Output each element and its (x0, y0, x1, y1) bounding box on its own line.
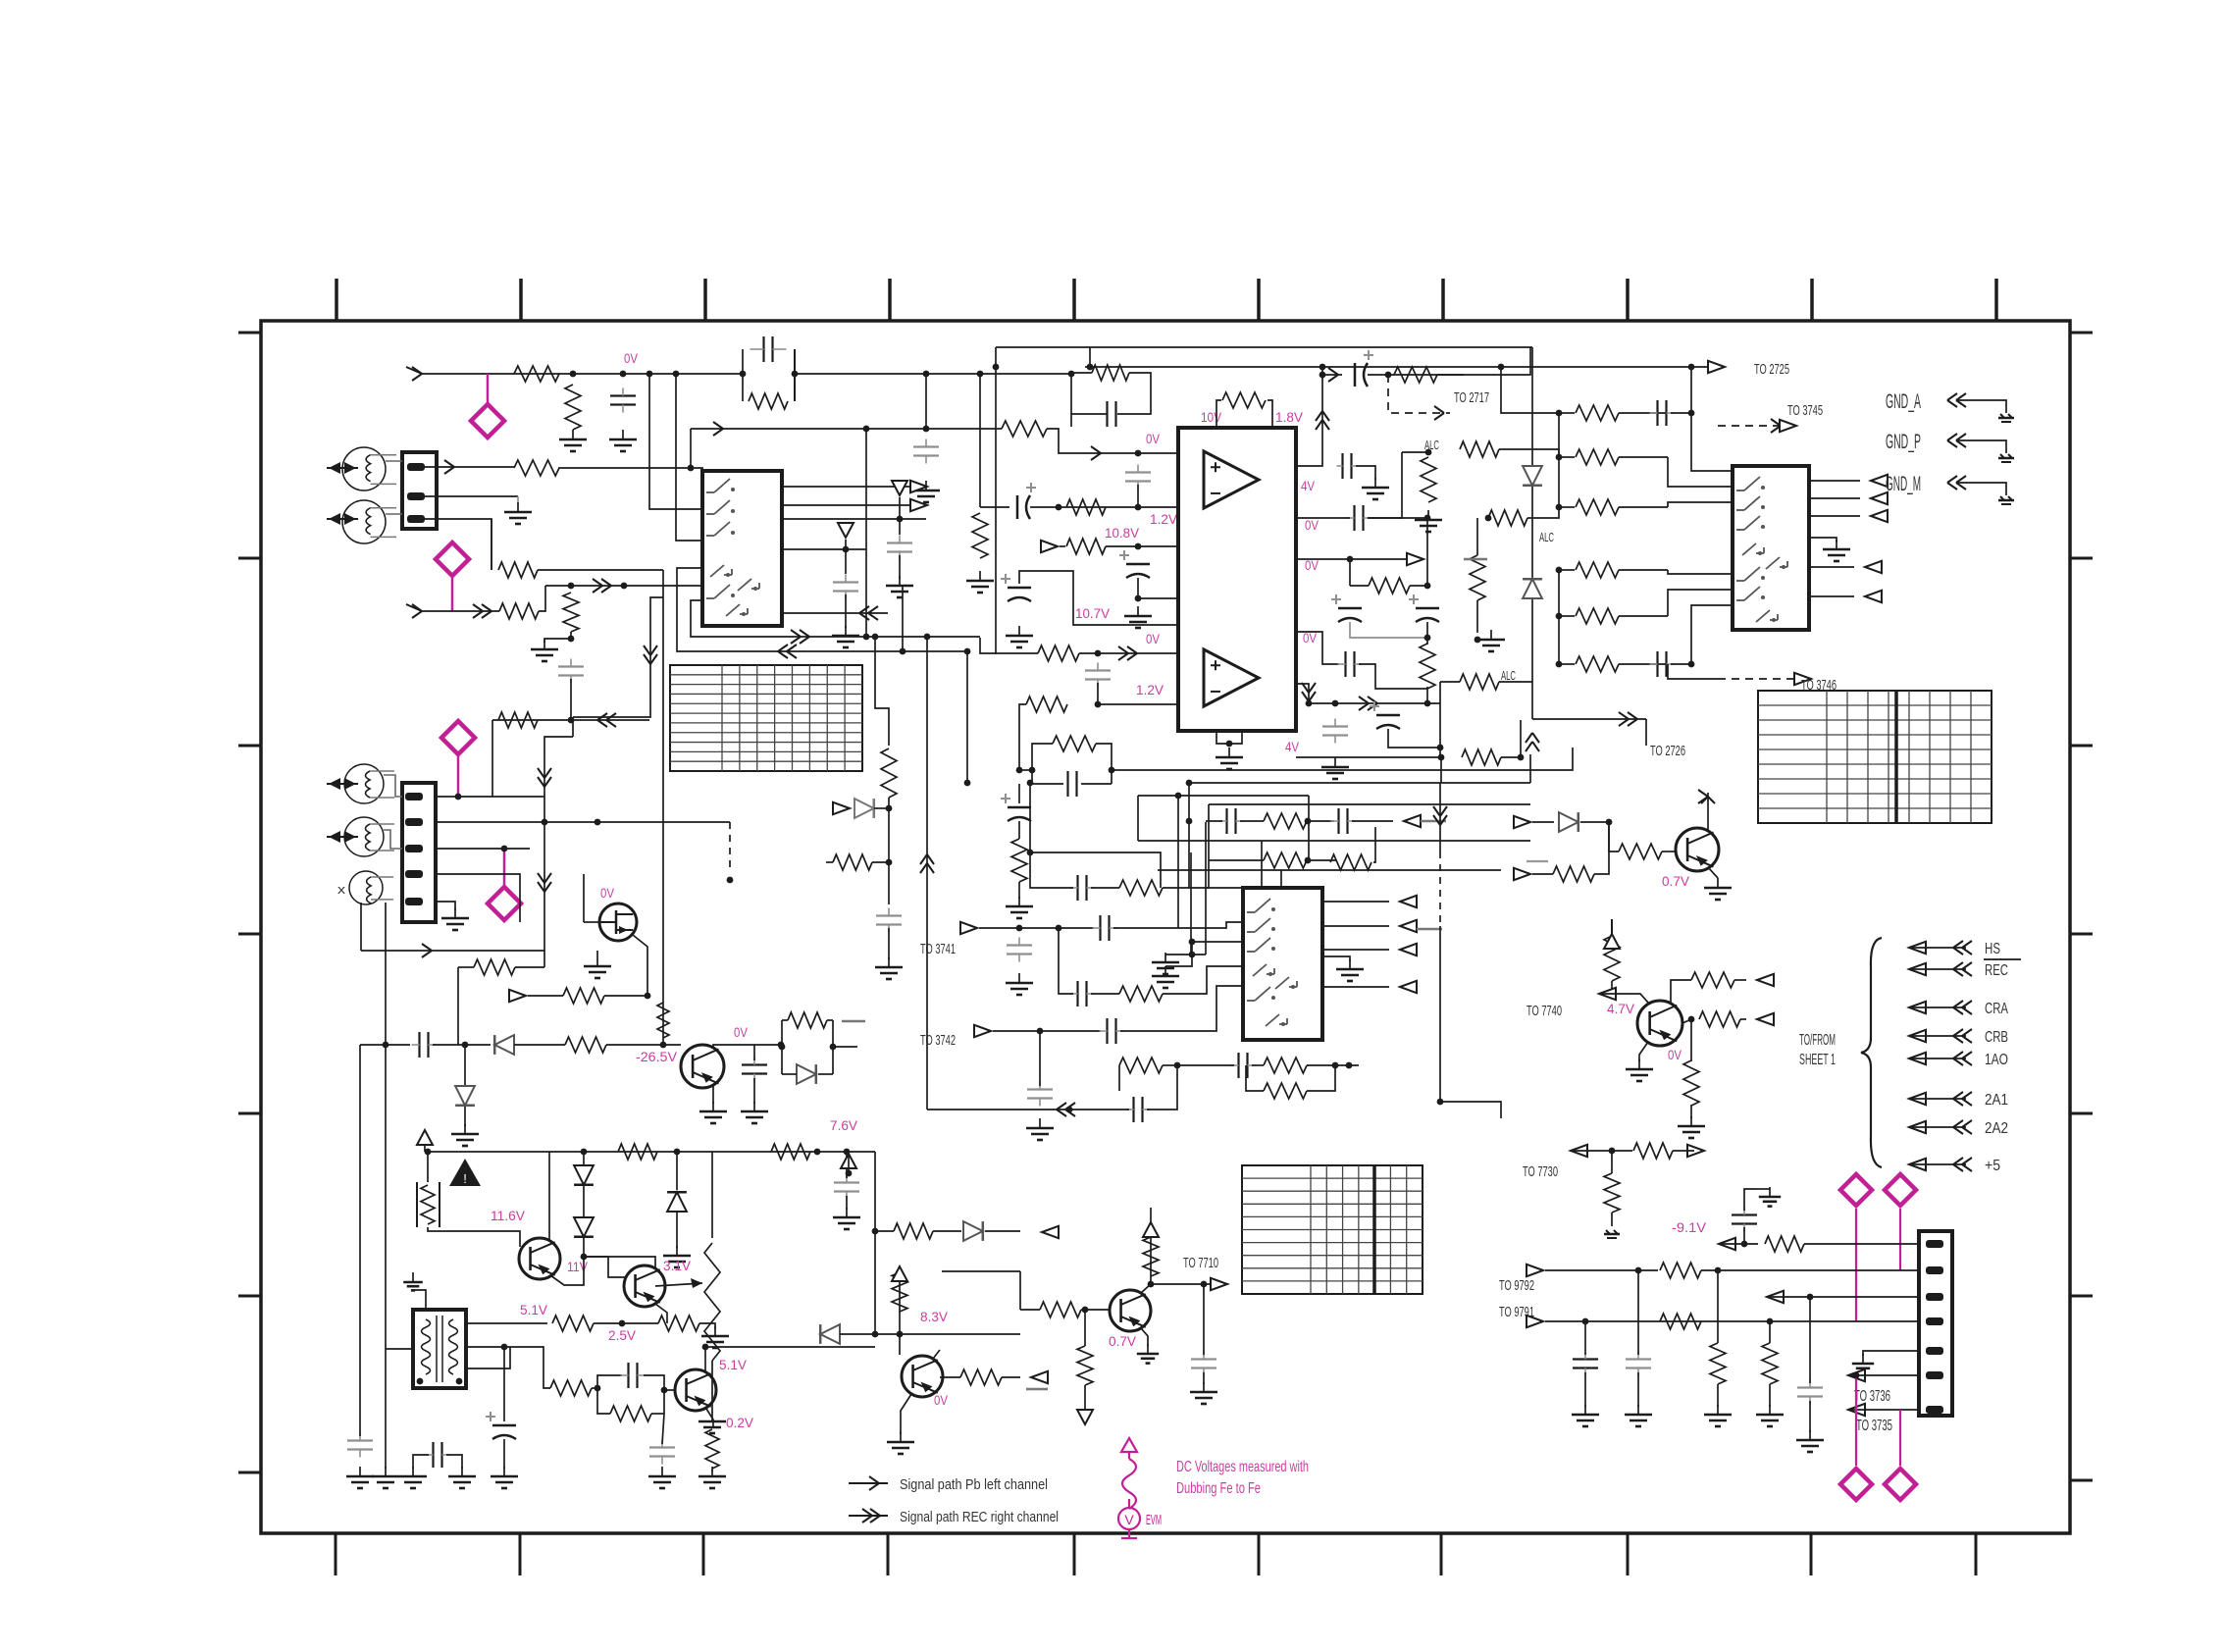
wire E650 (1426, 622, 1428, 645)
capacitor C147 (833, 581, 858, 583)
arrow lf (1065, 1103, 1075, 1110)
wire D6 drop (1899, 1209, 1901, 1270)
wire col879b (872, 861, 889, 863)
svg-text:GND_M: GND_M (1886, 473, 1921, 495)
wire alc top (1402, 451, 1428, 453)
node P5 (501, 846, 508, 852)
svg-text:1.8V: 1.8V (1275, 410, 1303, 425)
wire v467 (457, 967, 459, 1045)
ground G125 (712, 1102, 714, 1111)
wire bus663 drop (966, 651, 968, 783)
node I0 (1556, 567, 1563, 574)
arrow v663 (644, 645, 650, 655)
wire n2 dropb (1690, 1105, 1692, 1118)
wire pin X2-5 (436, 902, 455, 910)
wire 107loop (1019, 571, 1178, 625)
wire 4V bus (1296, 756, 1441, 758)
resistor R150 (771, 1144, 810, 1160)
node K5 (1175, 793, 1182, 800)
node L2 (1332, 1062, 1339, 1069)
svg-text:ALC: ALC (1539, 530, 1554, 544)
node E650 (1424, 635, 1431, 642)
resistor R161 (1077, 1346, 1093, 1385)
diode V110 (963, 1221, 983, 1241)
node J4 (1189, 939, 1196, 946)
wire RC1 out (795, 373, 1071, 375)
svg-text:+5: +5 (1985, 1158, 2000, 1174)
wire diamond D3 (457, 756, 460, 797)
wire stub862b (845, 594, 847, 628)
transformer core (436, 1316, 438, 1382)
wire input 623 (422, 610, 499, 612)
node P4 (727, 877, 734, 884)
wire mid97 (1769, 1296, 1919, 1298)
capacitor C137 (347, 1439, 373, 1441)
ground G121 (1638, 1059, 1640, 1069)
capacitor C105 (1125, 471, 1151, 473)
wire v663riser (573, 597, 663, 717)
wire j3 drop (1039, 1031, 1041, 1086)
wire v1530 (1501, 367, 1559, 413)
wire into U3 b (1668, 502, 1733, 507)
wire x3 gnd (1863, 1351, 1919, 1356)
wire 7730v2 (1611, 1213, 1613, 1226)
resistor R126 (1460, 441, 1499, 457)
capacitor C134 (627, 1363, 629, 1388)
wire r168b (1717, 1384, 1719, 1407)
capacitor C116 (1416, 607, 1439, 610)
wire RC1 frame2 (794, 349, 796, 401)
node L3 (1346, 1062, 1353, 1069)
arrow U1 o2 (910, 499, 927, 511)
arrow 9792 (1526, 1265, 1543, 1276)
node I1 (1556, 613, 1563, 620)
wire v883 (865, 429, 867, 637)
switch U4 s2 (1255, 918, 1270, 932)
arrow q2 o1 (1757, 974, 1774, 986)
wire s4 to q6 (584, 1257, 625, 1277)
node U8n (1853, 1372, 1860, 1379)
svg-text:TO 7740: TO 7740 (1526, 1003, 1562, 1019)
ground G135 (359, 1467, 361, 1476)
wire FB frame3 (1071, 413, 1107, 415)
arrow bus664 (787, 645, 797, 651)
pin X1-2 (407, 492, 425, 500)
node RC1a (740, 371, 747, 378)
wire lf1086c (1252, 1064, 1264, 1066)
wire bus734 (492, 719, 649, 721)
wire into U3 a (1668, 457, 1733, 487)
switch U3 s4 (1742, 543, 1756, 555)
ground G104 (979, 571, 981, 581)
wire col879 (826, 861, 833, 863)
capacitor C138 (432, 1442, 434, 1468)
wire v1286 (1261, 841, 1263, 888)
input arrow J3 (422, 944, 432, 951)
switch U3 s7 (1744, 587, 1760, 600)
frame tick top 5 (1072, 279, 1076, 321)
diode V104 (494, 1035, 514, 1055)
wire input top (422, 373, 743, 375)
wire pin X2-2 bus (436, 821, 730, 823)
wire head1 link (386, 460, 402, 462)
wire v690 (676, 1152, 678, 1190)
wire diamond D2 (451, 578, 454, 611)
node B6 (1135, 595, 1142, 602)
wire row905a (1030, 852, 1073, 888)
resistor R165 (1765, 1236, 1804, 1252)
pin X3-1 (1926, 1240, 1943, 1248)
wire q6 coll (584, 1257, 655, 1267)
wire v1589b (1558, 570, 1560, 664)
wire alc drop (1368, 452, 1402, 518)
wire r169b (1769, 1384, 1771, 1407)
arrow rec 734 (606, 713, 616, 720)
wire r155b (592, 1387, 597, 1389)
svg-text:0V: 0V (1668, 1048, 1682, 1062)
wire v1039b (1018, 784, 1020, 803)
wire r168 (1717, 1270, 1719, 1343)
transformer winding R (449, 1319, 458, 1374)
wire r134 up (1373, 827, 1375, 862)
diode V101 (1523, 466, 1542, 486)
switch U4 s5 (1275, 977, 1289, 989)
wire tr1 right2 (466, 1346, 504, 1348)
wire row1013b (1163, 966, 1243, 994)
chevron sig REC (1962, 962, 1972, 969)
resistor R157 (894, 1223, 933, 1239)
wire into U3 d (1668, 570, 1733, 574)
resistor R118 (1369, 578, 1410, 594)
wire bus1373b (705, 1346, 875, 1348)
arrow bus733 (1619, 712, 1629, 719)
tape head HD1 (342, 447, 386, 490)
wire v1111 (1089, 347, 1091, 367)
wire sig 2A2 (1911, 1126, 1966, 1128)
resistor R143 (1683, 1060, 1699, 1106)
node J1 (1016, 925, 1023, 932)
svg-text:HS: HS (1985, 941, 2000, 957)
wire v555 top (544, 737, 573, 755)
head arrows HD2 (329, 513, 340, 525)
arrow 3735 (1848, 1404, 1865, 1416)
ground G130 (711, 1467, 713, 1476)
resistor R171 (881, 749, 897, 798)
svg-text:x: x (337, 882, 346, 897)
wire U3 o3 (1809, 515, 1860, 517)
node S8 (595, 1385, 601, 1392)
wire q6 to pot (655, 1283, 702, 1286)
wire dashed 2717 (1388, 375, 1450, 413)
resistor R109 (1038, 645, 1079, 661)
legend arrow rec (849, 1515, 888, 1517)
frame tick top 9 (1810, 279, 1814, 321)
wire pin1 (425, 466, 515, 468)
arrow GND_A (1956, 393, 1966, 400)
node T0 (872, 1228, 879, 1235)
svg-text:TO/FROM: TO/FROM (1799, 1032, 1836, 1049)
diode V112 (854, 799, 874, 818)
chevron sig 2A2 (1962, 1120, 1972, 1127)
wire U4 o3 (1322, 949, 1389, 951)
input arrow J2 tail (406, 604, 422, 611)
wire q7 emit (706, 1409, 713, 1427)
wire F2v (1439, 703, 1441, 757)
node bus649a (924, 634, 931, 641)
chassis ground GND_M (1998, 499, 2014, 502)
wire r169 (1769, 1321, 1771, 1343)
wire U3 o1 (1809, 480, 1860, 482)
wire q3 gate v (583, 874, 585, 922)
svg-text:0V: 0V (1146, 632, 1160, 646)
wire pin2 drop (517, 496, 519, 504)
resistor R144 (474, 959, 515, 975)
node RC2c (1109, 767, 1115, 774)
input arrow J2 (412, 604, 422, 611)
wire v582 (570, 679, 572, 720)
diode V107 (574, 1165, 594, 1185)
ground G150 (888, 957, 890, 967)
wire sig CRB (1911, 1035, 1966, 1037)
switch U4 s1 (1255, 899, 1270, 912)
resistor R136 (1264, 1058, 1307, 1073)
wire 3742 (993, 1030, 1101, 1032)
switch U4 s6 (1255, 987, 1270, 1001)
svg-text:V: V (1124, 1512, 1134, 1527)
svg-text:7.6V: 7.6V (830, 1118, 857, 1133)
wire GND_M (1958, 483, 2006, 495)
arrow q1 up (1698, 790, 1708, 797)
diode V106 (797, 1064, 816, 1084)
wire fb837b (1240, 820, 1264, 822)
input arrow J1 (412, 367, 422, 374)
wire 3736 (1850, 1374, 1919, 1376)
wire pin X2-1 (436, 796, 544, 798)
capacitor C143 (1626, 1358, 1651, 1360)
diamond ref D7 (1840, 1469, 1872, 1500)
wire fb837d (1352, 820, 1393, 822)
arrow 3736 (1848, 1369, 1865, 1381)
resistor R158 (892, 1272, 907, 1312)
wire v368 (360, 903, 362, 951)
capacitor C123 (1099, 915, 1101, 941)
node P3 (595, 819, 601, 826)
frame tick top 10 (1994, 279, 1998, 321)
ground G113 (1334, 757, 1336, 767)
wire row517b (1030, 506, 1178, 508)
wire row718b (1019, 704, 1026, 770)
ground G154 (1018, 897, 1020, 906)
wire U2 top stub R (1268, 400, 1272, 428)
node B2 (1135, 450, 1142, 457)
frame tick right 2 (2070, 557, 2093, 560)
svg-text:0.2V: 0.2V (726, 1416, 753, 1430)
arrow row1255 (1042, 1226, 1059, 1238)
wire rail1065c (514, 1044, 565, 1046)
node R2 (660, 1042, 667, 1049)
wire h798 (1189, 782, 1530, 784)
wire into U3 f (1691, 605, 1733, 664)
node H3 (1688, 410, 1695, 417)
arrow GND_M (1956, 476, 1966, 483)
diamond ref D8 (1885, 1469, 1916, 1500)
wire pot top (711, 1152, 713, 1238)
wire U1 out1 (782, 486, 916, 488)
chassis ground 7730 (1604, 1233, 1620, 1236)
pin X1-3 (407, 515, 425, 523)
node R3 (778, 1042, 785, 1049)
ground G132 (714, 1326, 716, 1336)
svg-text:-9.1V: -9.1V (1672, 1220, 1706, 1235)
wire row1255b (933, 1230, 961, 1232)
node v393 (383, 1042, 389, 1049)
wire r144 (515, 966, 544, 968)
wire U2 570 (1296, 558, 1413, 560)
frame tick left 3 (238, 745, 261, 748)
tape head HD2 (342, 500, 386, 543)
ground G105 (1137, 606, 1139, 616)
arrow U1 o3 (868, 606, 878, 613)
wire row581 (538, 569, 663, 571)
capacitor C126 (1106, 1018, 1108, 1044)
node bus651d (872, 634, 879, 641)
node T4 (1082, 1307, 1089, 1314)
transistor Q4 (681, 1045, 724, 1088)
node S5 (814, 1149, 821, 1156)
wire rc3b2 (782, 1073, 797, 1075)
arrow v945 (920, 863, 927, 873)
head arrows HD3 (329, 778, 340, 790)
frame tick right 3 (2070, 745, 2093, 748)
wire 3746 stub (1668, 664, 1718, 679)
svg-text:TO 2726: TO 2726 (1650, 743, 1685, 759)
wire row1013a (1059, 928, 1073, 994)
wire stub917b (899, 555, 901, 579)
ground G102 (622, 430, 624, 439)
ground G126 (753, 1102, 755, 1111)
wire U2 697 (1296, 684, 1440, 703)
wire 7730v (1611, 1151, 1613, 1173)
switch U1 s5 (738, 579, 751, 591)
wire v502 low (492, 720, 493, 797)
wire 644b (1359, 664, 1427, 689)
wire v1232 (1207, 804, 1209, 888)
resistor R103 (749, 393, 788, 409)
wire U1 out560 (782, 548, 866, 550)
ground G106 (1018, 626, 1020, 636)
wire row905 (1091, 887, 1119, 889)
wire RC2 mid (1019, 769, 1032, 771)
wire r144b (458, 966, 474, 968)
EVM arrow (1121, 1438, 1137, 1452)
switch U3 s5 (1766, 557, 1780, 569)
tri 7740 top (1604, 934, 1620, 949)
wire v595b (583, 1186, 585, 1218)
svg-text:-26.5V: -26.5V (636, 1050, 677, 1064)
wire pin2 (425, 495, 518, 497)
frame tick top 6 (1257, 279, 1261, 321)
node U3n (1635, 1267, 1642, 1274)
resistor R106 (1066, 499, 1106, 515)
wire q5 coll (548, 1152, 550, 1240)
tri stub 862 (838, 523, 854, 538)
svg-text:5.1V: 5.1V (520, 1303, 547, 1317)
wire r154b (699, 1323, 715, 1329)
frame tick top 3 (703, 279, 707, 321)
resistor R173 (1011, 839, 1027, 882)
node E597 (1424, 583, 1431, 590)
connector X2 (402, 783, 436, 922)
ground G120 (1717, 878, 1719, 888)
wire RC2 frame3 (1032, 770, 1063, 784)
node W6 (1027, 850, 1034, 856)
wire h1296 (942, 1270, 1020, 1272)
frame tick left 1 (238, 332, 261, 335)
switch U4 s3 (1255, 938, 1270, 952)
wire q2 emit (1639, 1042, 1648, 1061)
wire v999 (979, 374, 981, 507)
node Q3d (645, 993, 651, 1000)
tri t3 (892, 1266, 907, 1281)
switch U4 s4 (1253, 964, 1267, 976)
transistor Q6 (624, 1265, 665, 1307)
wire bus649 (691, 600, 980, 637)
wire c142 (1584, 1321, 1586, 1355)
resistor R131 (1119, 986, 1163, 1002)
wire q3 gate (584, 921, 599, 923)
arrow up U2 (1316, 420, 1322, 430)
resistor R121 (1576, 449, 1619, 465)
wire lf1086b (1177, 1064, 1234, 1066)
frame tick bottom 2 (519, 1533, 522, 1575)
wire 7740h (1601, 994, 1648, 1003)
resistor R172 (1462, 749, 1501, 765)
node T2 (844, 1149, 851, 1156)
frame tick left 7 (238, 1471, 261, 1474)
arrow rec U2 (1359, 697, 1369, 703)
wire D7 rise (1855, 1375, 1857, 1466)
wire E528 link (1368, 517, 1427, 519)
wire v689 (676, 374, 702, 541)
svg-text:GND_P: GND_P (1886, 431, 1921, 453)
arrow up 1562 (1526, 742, 1532, 751)
wire rc3b (827, 1019, 833, 1021)
node J2 (1056, 925, 1062, 932)
wire q6 emit (655, 1304, 667, 1323)
capacitor C115 (1338, 607, 1362, 610)
capacitor C114 (1353, 505, 1355, 531)
node L1 (1174, 1062, 1181, 1069)
arrow sig HS (1909, 942, 1926, 954)
transistor Q8 (902, 1356, 943, 1397)
erase head HD5 (349, 871, 383, 904)
wire c140b (1203, 1372, 1205, 1384)
resistor R133 (1264, 852, 1307, 868)
diode V103 (1559, 812, 1578, 832)
wire coil drop (662, 996, 664, 1045)
wire v502 (491, 519, 492, 570)
resistor R111 (1053, 736, 1096, 751)
wire into U3 c (1691, 413, 1733, 471)
wire fb877b (1307, 859, 1336, 861)
node H2 (1556, 504, 1563, 511)
pin X3-3 (1926, 1293, 1943, 1301)
wire E570b (1350, 585, 1369, 587)
ground G143 (1769, 1187, 1771, 1197)
capacitor C140 (1191, 1358, 1216, 1360)
node R1 (462, 1042, 469, 1049)
wire v945 (926, 637, 928, 1110)
